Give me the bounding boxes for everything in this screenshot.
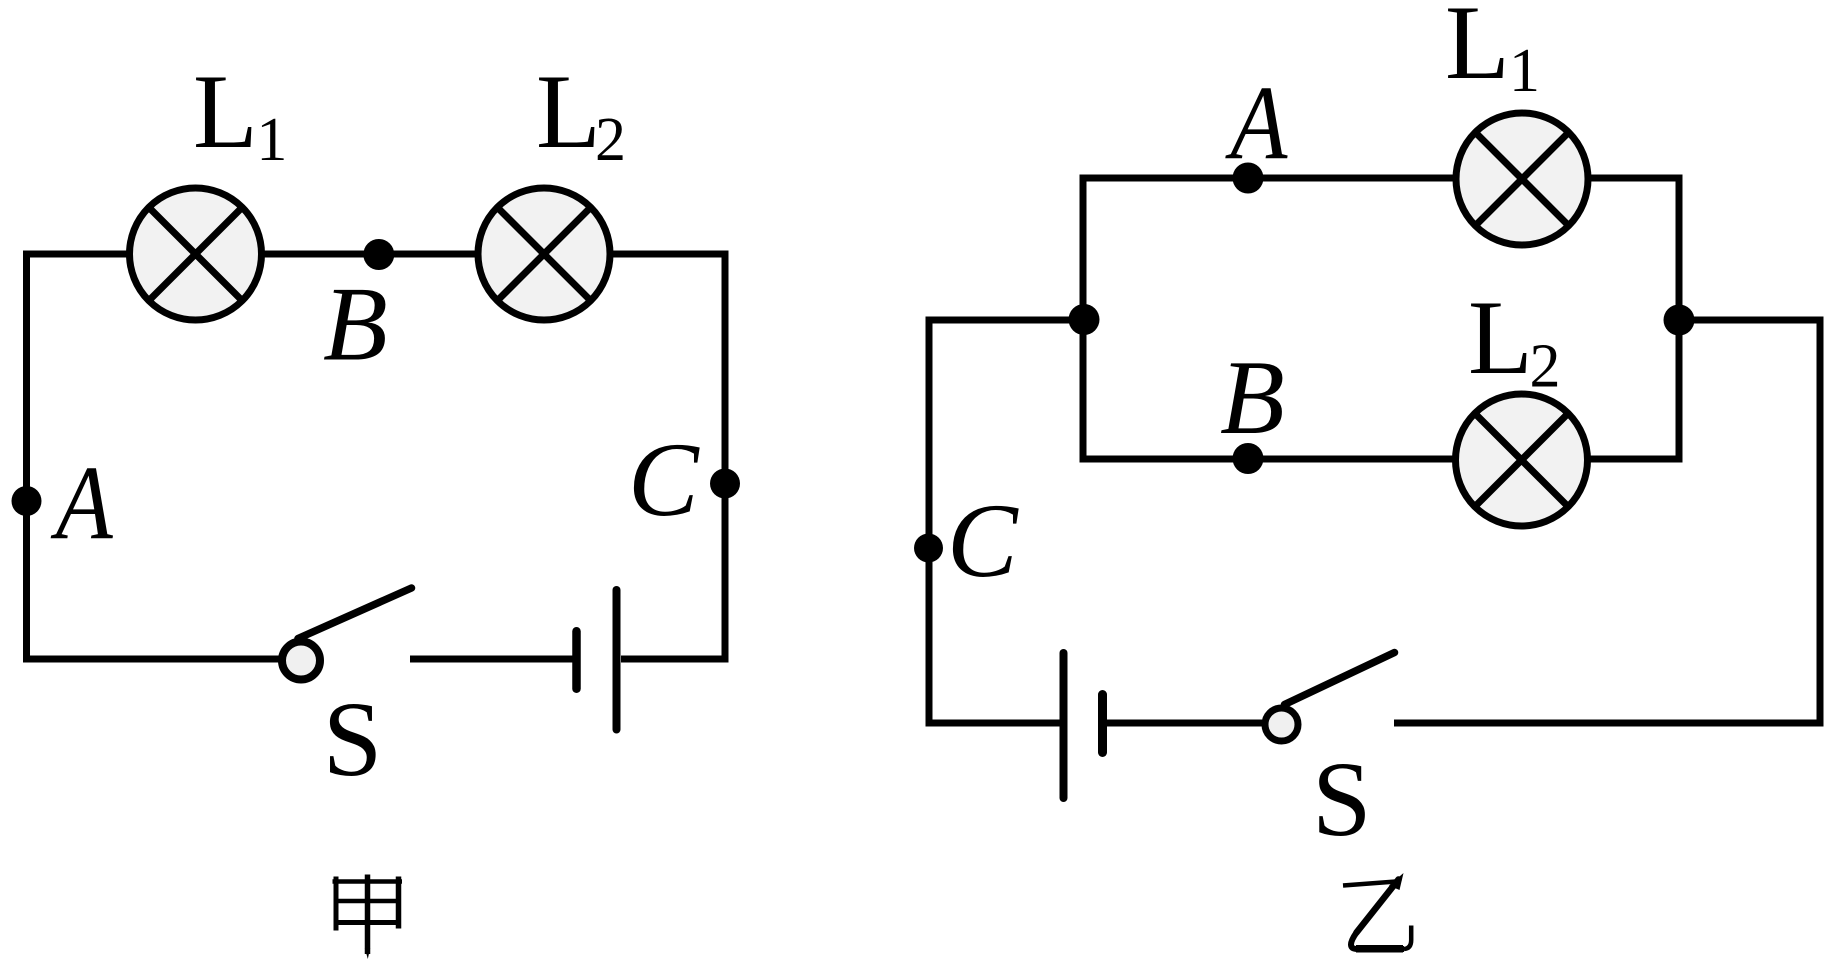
svg-text:1: 1 [256, 106, 287, 174]
node C (left circuit) [710, 469, 740, 499]
wire: left tap + left outer vertical + bottom-left [929, 320, 1083, 723]
lamp L2 (right circuit) [1456, 394, 1588, 526]
wire: left vertical + top + right vertical + bottom stubs [27, 254, 726, 659]
node A (right circuit) [1233, 163, 1264, 194]
wire: bottom middle segment between switch and battery [410, 656, 573, 663]
lamp L1 (right circuit) [1456, 113, 1588, 245]
lamp L1 (left circuit) [130, 188, 262, 320]
svg-text:C: C [947, 482, 1019, 599]
svg-text:1: 1 [1509, 37, 1540, 105]
switch S (right circuit) [1265, 653, 1395, 742]
svg-text:C: C [628, 421, 700, 538]
svg-text:A: A [1225, 64, 1289, 182]
svg-text:L: L [536, 53, 601, 170]
node A (left circuit) [12, 486, 42, 516]
wire: switch to right outer vertical + up + to right junction [1394, 320, 1820, 723]
node B (right circuit) [1233, 443, 1264, 474]
svg-text:B: B [1220, 339, 1285, 456]
switch S (left circuit) [282, 588, 412, 680]
lamp L2 (left circuit) [478, 188, 610, 320]
svg-text:L: L [193, 53, 258, 170]
caption 乙 (yǐ) drawn as strokes [1343, 880, 1411, 950]
junction left (right circuit) [1069, 304, 1100, 335]
svg-text:S: S [323, 681, 383, 799]
svg-text:L: L [1468, 279, 1533, 396]
battery (left circuit): long plate [613, 590, 621, 730]
caption 甲 (jiǎ) drawn as strokes [333, 875, 403, 955]
battery (right circuit): short plate [1098, 695, 1107, 753]
node C (right circuit) [914, 534, 943, 563]
wire: inner parallel rectangle [1083, 178, 1679, 459]
node B (left circuit) [363, 239, 394, 270]
battery (right circuit): long plate [1060, 653, 1068, 798]
junction right (right circuit) [1664, 305, 1695, 336]
svg-text:A: A [50, 444, 114, 562]
svg-text:B: B [323, 266, 388, 383]
svg-text:2: 2 [595, 106, 626, 174]
svg-text:2: 2 [1530, 333, 1561, 401]
serif accent on 乙 [1389, 873, 1404, 890]
svg-text:S: S [1312, 741, 1372, 859]
svg-text:L: L [1445, 0, 1510, 101]
wire: battery to switch [1107, 720, 1263, 727]
battery (left circuit): short plate [572, 631, 581, 689]
